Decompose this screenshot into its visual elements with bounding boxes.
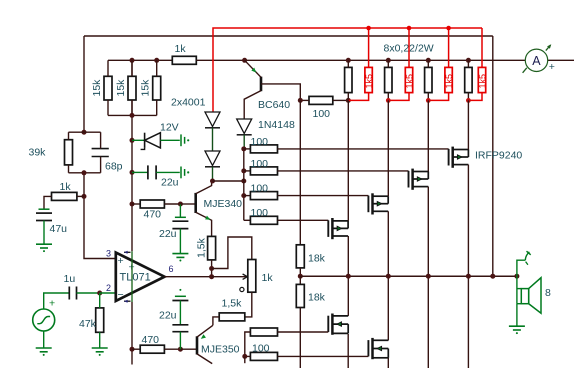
resistor 1k divider: [52, 192, 77, 200]
wire to 470 upper: [132, 203, 140, 205]
diode 1N4148: [237, 119, 252, 135]
resistor 470 upper: [140, 200, 164, 208]
wire to zener: [132, 139, 145, 141]
label source plus: [49, 298, 55, 310]
svg-text:100: 100: [251, 207, 269, 219]
label 470 upper: [144, 209, 162, 221]
label 15k second: [115, 79, 127, 97]
wire bias rail: [196, 59, 525, 61]
node source bus junction 2: [386, 98, 391, 103]
wire source bus 1 lower: [347, 236, 349, 276]
resistor 18k lower: [296, 284, 304, 307]
label 100 gate row4: [251, 207, 269, 219]
transistor Q3 MJE350: [197, 325, 213, 363]
wire bus 4 below rail: [467, 276, 469, 368]
diode 4001 second: [205, 151, 220, 167]
wire non-inverting input column lower: [84, 173, 116, 259]
svg-text:2x4001: 2x4001: [171, 97, 206, 109]
wire red positive feed: [213, 28, 482, 112]
wire 18k lower stub: [299, 276, 301, 284]
wire 39k/68p bottom: [69, 172, 101, 174]
node output rail junction x468: [466, 274, 471, 279]
resistor 1k bias: [172, 56, 196, 64]
label 1k5 red 4: [477, 74, 487, 89]
wire lower 100 left link: [245, 332, 251, 356]
node red bus tap 1: [366, 26, 371, 31]
pot terminal circle: [240, 287, 244, 291]
wire source bus 2 lower: [387, 211, 389, 276]
resistor 1,5k vertical: [208, 236, 216, 260]
svg-text:+: +: [118, 255, 124, 267]
node output rail junction x388: [386, 274, 391, 279]
resistor 0.22 black 2: [385, 60, 392, 100]
wire ladder to resistor row3: [244, 195, 251, 197]
capacitor 22u output: [172, 289, 188, 349]
resistor 100 gate row1: [250, 145, 277, 153]
svg-text:2: 2: [106, 283, 111, 293]
svg-text:6: 6: [169, 264, 174, 274]
wire bus 2 bottom: [387, 358, 389, 368]
mosfet M1 IRFP9240: [328, 218, 348, 239]
label 22u horizontal: [161, 177, 179, 189]
resistor 39k: [65, 132, 73, 173]
wire gate row2: [278, 170, 409, 172]
resistor 18k upper: [296, 245, 304, 268]
svg-text:100: 100: [251, 183, 269, 195]
label 1k divider: [60, 181, 72, 193]
label MJE350: [201, 344, 240, 356]
label 1k5 red 1: [364, 74, 374, 89]
label pot 1k: [262, 272, 274, 284]
transistor Q2 MJE340: [196, 181, 212, 236]
label op-amp minus input: [118, 289, 124, 301]
svg-text:470: 470: [144, 209, 162, 221]
label 8x0,22/2W: [384, 43, 434, 55]
node 15k3 top: [154, 58, 159, 63]
capacitor 22u horizontal: [148, 165, 156, 179]
node bc640 base junction: [298, 98, 303, 103]
wire 1k to 47u: [44, 196, 52, 209]
node source bus 1 junction: [346, 98, 351, 103]
wire bus 1 bottom: [347, 334, 349, 368]
resistor 100 gate row2: [250, 167, 277, 175]
node bias rail junction 3: [426, 58, 431, 63]
wire 4001 to junction: [212, 167, 214, 181]
wire to 470 lower: [132, 348, 140, 350]
svg-text:3: 3: [106, 249, 111, 259]
wire bc640 node to 100: [300, 99, 309, 101]
resistor 0.22 red 3: [428, 28, 452, 100]
svg-text:1k5: 1k5: [444, 74, 454, 89]
node gate ladder junction row2: [241, 168, 246, 173]
node gate ladder mid junction: [241, 179, 246, 184]
wire 22u to terminal: [156, 171, 180, 173]
label 12V: [160, 122, 179, 134]
speaker LS1 8 ohm: [517, 278, 541, 314]
label op-amp plus center: [129, 262, 135, 274]
node inverting input junction: [97, 291, 102, 296]
wire op-amp output: [165, 276, 212, 278]
wire drain bus 4 upper: [467, 100, 469, 149]
wire gate ladder column: [243, 149, 245, 220]
node 15k bottom junction: [130, 113, 135, 118]
svg-text:A: A: [532, 54, 541, 68]
svg-text:470: 470: [142, 334, 160, 346]
wire 18k upper to rail: [299, 268, 301, 276]
svg-text:1k5: 1k5: [477, 74, 487, 89]
wire 15k bottom rail: [108, 114, 157, 116]
label 1k5 red 2: [404, 74, 414, 89]
svg-text:15k: 15k: [140, 79, 152, 97]
ground 47u: [36, 244, 52, 252]
wire base node down: [179, 204, 181, 217]
wire 1k to tap: [77, 195, 84, 197]
svg-text:BC640: BC640: [258, 99, 290, 111]
resistor 100 lower gate A: [250, 328, 277, 336]
wire 22u base to ground: [179, 229, 181, 254]
label 100 bc640: [313, 108, 331, 120]
node output rail junction x348: [346, 274, 351, 279]
pin 4 marker: [124, 300, 131, 303]
label ammeter A: [532, 54, 541, 68]
label 100 gate row3: [251, 183, 269, 195]
resistor 0.22 red 2: [388, 28, 412, 100]
capacitor 1u: [69, 287, 76, 300]
resistor 100 lower gate B: [250, 352, 277, 360]
node source bus junction 4: [466, 98, 471, 103]
svg-text:100: 100: [251, 158, 269, 170]
ammeter needle: [523, 43, 553, 73]
svg-text:100: 100: [313, 108, 331, 120]
wire gate row1: [278, 148, 449, 150]
svg-text:18k: 18k: [308, 253, 326, 265]
wire bus 3 below rail: [427, 276, 429, 368]
node 470 lower junction: [130, 347, 135, 352]
wire 47u to ground: [43, 221, 45, 244]
wire source bus 4 lower: [467, 165, 469, 277]
wire gate lower A: [278, 331, 329, 333]
svg-text:1k: 1k: [175, 43, 187, 55]
potentiometer 1k: [248, 260, 256, 293]
node source bus junction 3: [426, 98, 431, 103]
svg-text:1k: 1k: [60, 181, 72, 193]
wire bias rail right of ammeter: [548, 59, 574, 61]
wire drain bus 2 upper: [387, 100, 389, 196]
label 68p: [105, 161, 123, 173]
pin 3 label: [106, 249, 111, 259]
node gate ladder junction row3: [241, 193, 246, 198]
node divider tap junction: [82, 194, 87, 199]
meter A1 ammeter: [525, 49, 547, 71]
label IRFP9240: [475, 150, 522, 162]
wire to pot top: [212, 237, 252, 269]
wire 39k/68p top: [69, 131, 101, 133]
mosfet lower B: [368, 338, 388, 359]
resistor 100 gate row3: [250, 192, 277, 200]
svg-text:MJE350: MJE350: [201, 344, 240, 356]
svg-text:1N4148: 1N4148: [258, 119, 295, 131]
svg-text:TL071: TL071: [120, 272, 151, 284]
svg-text:22u: 22u: [161, 177, 179, 189]
wire bus 1 below rail: [347, 276, 349, 316]
wire to 22u horizontal: [132, 171, 148, 173]
wire supply column stub: [131, 349, 133, 364]
label 8 ohm: [545, 287, 551, 299]
wire bc640 base column: [299, 100, 301, 244]
wire 470 to base node: [164, 203, 180, 205]
label 1,5k vertical: [196, 237, 208, 258]
resistor 1,5k horizontal: [219, 313, 245, 321]
label 18k upper: [308, 253, 326, 265]
source V1 sine: [33, 309, 55, 331]
svg-text:100: 100: [251, 136, 269, 148]
svg-text:18k: 18k: [308, 292, 326, 304]
node output rail left junction: [298, 274, 303, 279]
svg-text:22u: 22u: [159, 310, 177, 322]
node pot top feed junction: [209, 266, 214, 271]
label TL071: [120, 272, 151, 284]
wire 15k top rail: [108, 59, 172, 61]
label 39k: [29, 147, 47, 159]
label 15k third: [140, 79, 152, 97]
svg-text:100: 100: [252, 342, 270, 354]
svg-text:+: +: [49, 298, 55, 310]
wire non-inverting input column upper: [83, 36, 85, 132]
node gate ladder junction row1: [241, 146, 246, 151]
resistor 470 lower: [140, 345, 164, 353]
svg-text:1k: 1k: [262, 272, 274, 284]
resistor 100 gate row4: [250, 216, 277, 224]
node output rail junction x492: [490, 274, 495, 279]
svg-text:1,5k: 1,5k: [222, 298, 243, 310]
wire pot bottom: [245, 292, 252, 317]
pin 2 label: [106, 283, 111, 293]
wire 1N4148 to gate ladder: [243, 135, 245, 149]
terminal 22u rail: [181, 167, 189, 179]
wire lower 100 stub: [244, 356, 246, 363]
wire base wire MJE340: [180, 203, 195, 205]
svg-text:1k5: 1k5: [364, 74, 374, 89]
pin 7 marker: [124, 251, 131, 254]
wire bus 2 below rail: [387, 276, 389, 340]
node speaker junction: [514, 274, 519, 279]
label 2x4001: [171, 97, 206, 109]
svg-text:IRFP9240: IRFP9240: [475, 150, 522, 162]
svg-text:68p: 68p: [105, 161, 123, 173]
wire output column right (top rail to output rail): [492, 36, 494, 276]
wire supply column lower: [131, 302, 133, 349]
wire ladder to resistor row1: [244, 148, 251, 150]
label 22u output: [159, 310, 177, 322]
label 18k lower: [308, 292, 326, 304]
capacitor 68p: [92, 132, 109, 173]
node 22u horizontal junction: [130, 170, 135, 175]
pin 6 label: [169, 264, 174, 274]
svg-text:15k: 15k: [115, 79, 127, 97]
node MJE340 base junction: [178, 202, 183, 207]
wire ladder to resistor row4: [244, 219, 251, 221]
node 4001 bottom junction: [210, 179, 215, 184]
svg-text:8: 8: [545, 287, 551, 299]
node bias rail junction 4: [466, 58, 471, 63]
label 1,5k horizontal: [222, 298, 243, 310]
transistor Q1 BC640: [244, 60, 300, 119]
wire speaker left: [516, 276, 518, 304]
resistor 15k second: [128, 60, 136, 115]
node bias rail junction 2: [386, 58, 391, 63]
mosfet lower A: [328, 314, 348, 335]
resistor 15k third: [153, 60, 161, 115]
ground 47k: [92, 348, 108, 356]
wire source to ground: [43, 331, 45, 348]
svg-text:47u: 47u: [50, 223, 68, 235]
mosfet M3 IRFP9240: [409, 169, 429, 190]
label 47k: [79, 318, 97, 330]
label 1k5 red 3: [444, 74, 454, 89]
label 1k bias: [175, 43, 187, 55]
node pin3 feedback junction bottom: [82, 170, 87, 175]
wire speaker feed: [517, 260, 525, 276]
resistor 0.22 red 1: [348, 28, 372, 100]
svg-text:39k: 39k: [29, 147, 47, 159]
wire between 4001 diodes: [212, 128, 214, 151]
wire supply column upper: [131, 60, 133, 251]
ground source: [36, 348, 52, 356]
svg-text:15k: 15k: [91, 79, 103, 97]
wire 100 to source bus 1: [333, 99, 349, 101]
wire drain bus 1 upper: [347, 100, 349, 220]
resistor 0.22 black 4: [465, 60, 472, 100]
label 470 lower: [142, 334, 160, 346]
svg-text:−: −: [118, 289, 124, 301]
wire zener to terminal: [160, 139, 179, 141]
node pin3 feedback junction top: [82, 130, 87, 135]
node red bus tap 3: [446, 26, 451, 31]
svg-text:47k: 47k: [79, 318, 97, 330]
node zener junction: [130, 138, 135, 143]
capacitor 22u base: [172, 217, 188, 228]
label op-amp plus input: [118, 255, 124, 267]
mosfet M2 IRFP9240: [368, 193, 388, 214]
wire gate lower B: [278, 355, 369, 357]
wire 1u to pin2: [77, 292, 100, 294]
label 1N4148: [258, 119, 295, 131]
mosfet M4 IRFP9240: [449, 147, 469, 168]
capacitor 47u: [36, 209, 52, 220]
wire source bus 3 lower: [427, 187, 429, 277]
label MJE340: [204, 198, 243, 210]
svg-text:22u: 22u: [159, 228, 177, 240]
wire 470 lower to base node: [164, 348, 180, 350]
pot wiper arrow: [212, 274, 248, 279]
svg-text:1k5: 1k5: [404, 74, 414, 89]
label 100 gate row2: [251, 158, 269, 170]
label 22u base: [159, 228, 177, 240]
svg-text:12V: 12V: [160, 122, 179, 134]
label 100 gate row1: [251, 136, 269, 148]
wire feedback top rail: [84, 35, 493, 37]
svg-text:MJE340: MJE340: [204, 198, 243, 210]
wire source to 1u: [44, 293, 70, 309]
label 47u: [50, 223, 68, 235]
wire MJE350 base: [180, 348, 197, 350]
terminal zener rail: [181, 134, 189, 146]
wire output rail: [300, 275, 517, 277]
svg-text:1u: 1u: [64, 273, 76, 285]
resistor 0.22 black 1: [345, 60, 352, 100]
label BC640: [258, 99, 290, 111]
wire ladder to resistor row2: [244, 170, 251, 172]
op-amp U1 TL071 triangle: [116, 253, 165, 302]
node 15k2 top: [130, 58, 135, 63]
node bias rail junction 1: [346, 58, 351, 63]
terminal speaker hook: [525, 251, 530, 265]
resistor 0.22 black 3: [425, 60, 432, 100]
resistor 0.22 red 4: [468, 28, 485, 100]
node output rail junction x428: [426, 274, 431, 279]
wire 18k lower down: [299, 308, 301, 368]
node BC640 emitter junction: [242, 58, 247, 63]
node lower 100 junction: [242, 354, 247, 359]
wire supply column through op-amp: [131, 251, 133, 302]
wire gate row3: [278, 195, 369, 197]
diode 4001 first: [205, 112, 220, 128]
wire gate row4: [278, 219, 329, 221]
wire junction to op-amp pin2: [100, 292, 116, 294]
node red bus tap 2: [407, 26, 412, 31]
wire 1,5k to output: [211, 260, 213, 277]
resistor 15k first: [104, 60, 112, 115]
wire speaker to ground: [516, 304, 518, 326]
resistor 47k: [96, 293, 104, 348]
svg-text:+: +: [549, 61, 555, 73]
label 15k first: [91, 79, 103, 97]
wire drain bus 3 upper: [427, 100, 429, 171]
svg-text:1,5k: 1,5k: [196, 237, 208, 258]
ground 22u base: [172, 254, 188, 262]
node output junction: [209, 274, 214, 279]
resistor 100 bc640: [309, 96, 333, 104]
wire 1,5k to MJE350 emitter: [213, 317, 219, 325]
zener diode 12V: [141, 133, 161, 150]
label 1u: [64, 273, 76, 285]
label 100 lower: [252, 342, 270, 354]
wire 4001 to gate ladder: [213, 180, 244, 182]
ground speaker: [509, 326, 525, 334]
node MJE350 base junction: [178, 347, 183, 352]
node 470 upper junction: [130, 202, 135, 207]
label ammeter plus: [549, 61, 555, 73]
